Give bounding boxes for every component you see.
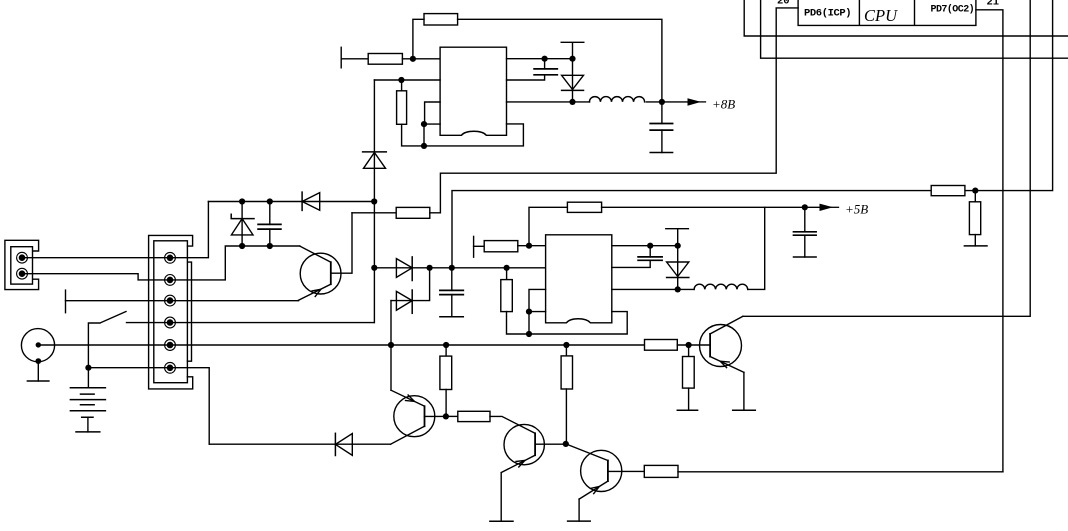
wire R14 to pin21 net bbox=[678, 471, 1003, 473]
node dot D1 top bbox=[569, 56, 575, 62]
resistor R11 vertical bbox=[440, 345, 452, 416]
node dot zener top bbox=[239, 198, 245, 204]
node dot fb junction bbox=[526, 243, 532, 249]
wire D7 to Q4 collector bbox=[335, 443, 390, 445]
resistor R3 vertical bbox=[397, 80, 424, 146]
node dot Q4 emitter bus bbox=[388, 342, 394, 348]
capacitor C6 bbox=[794, 207, 817, 257]
node dot IC2 pin4 bbox=[526, 309, 532, 315]
resistor R7 bbox=[931, 186, 965, 196]
connector X2 housing bbox=[154, 241, 188, 383]
wire Q1 base to R4 bbox=[352, 212, 396, 214]
resistor R6 vertical bbox=[501, 268, 529, 334]
resistor R9 bbox=[645, 340, 678, 351]
wire IC2 bottom wrap loop bbox=[529, 312, 627, 334]
wire Q3 collector net bbox=[743, 0, 1030, 316]
terminal stub T1 bbox=[340, 47, 342, 68]
node dot D6 top bbox=[675, 243, 681, 249]
wire Q4 emitter to bus bbox=[390, 345, 392, 390]
wire CPU pin21 down bbox=[976, 10, 1003, 472]
capacitor C3 bbox=[258, 202, 281, 247]
CPU box bbox=[798, 0, 976, 25]
wire IC1 pin1 right rail bbox=[507, 58, 573, 60]
wire T1 to R2 bbox=[341, 58, 368, 60]
node dot C3 top bbox=[267, 198, 273, 204]
node dot IC2 loop bbox=[526, 331, 532, 337]
wire IC1 output bbox=[507, 101, 590, 103]
capacitor C2 bbox=[650, 102, 672, 153]
connector X2 pin 5 bbox=[165, 340, 176, 351]
wire battery rail top bbox=[208, 201, 374, 203]
svg-text:PD6(ICP): PD6(ICP) bbox=[804, 8, 851, 20]
node dot R8 top bbox=[972, 188, 978, 194]
wire L1 to arrow bbox=[646, 101, 688, 103]
svg-text:+5B: +5B bbox=[845, 201, 868, 216]
resistor R12 vertical bbox=[561, 345, 572, 444]
wire long bus y58 bbox=[761, 0, 1068, 58]
diode D7 bbox=[335, 433, 352, 455]
wire R4 to CPU pin20 bbox=[430, 8, 798, 213]
connector X2 pin 1 bbox=[165, 252, 176, 263]
capacitor C4 bbox=[440, 268, 463, 317]
inductor L1 bbox=[589, 97, 644, 102]
resistor R4 bbox=[396, 207, 430, 218]
wire IC2 pin3 left bbox=[529, 289, 546, 311]
node dot D4 out bbox=[427, 265, 433, 271]
resistor R14 bbox=[644, 465, 678, 477]
wire IC1 pin2 left to rail bbox=[374, 79, 440, 81]
wire R5 to IC2 pin1 bbox=[518, 245, 546, 247]
connector X2 shell bbox=[149, 235, 193, 389]
wire IC2 output bbox=[612, 288, 694, 290]
connector X1 pin 1 bbox=[17, 252, 28, 263]
wire IC1 pin4 left bbox=[424, 124, 440, 146]
terminal stub T3 bbox=[473, 236, 475, 257]
zener VD1 bbox=[231, 202, 254, 247]
terminal stub pin3 bbox=[65, 290, 67, 313]
svg-text:20: 20 bbox=[777, 0, 790, 7]
diode D6 bbox=[667, 246, 689, 290]
resistor R fb2 bbox=[567, 202, 601, 212]
node dot C3 bottom bbox=[267, 243, 273, 249]
wire R1 left to node bbox=[413, 19, 424, 59]
wire IC2 pin4 left bbox=[529, 312, 546, 334]
connector X1 pin 2 bbox=[17, 268, 28, 279]
terminal bar T4 bbox=[666, 229, 689, 246]
svg-text:PD7(OC2): PD7(OC2) bbox=[931, 3, 975, 15]
resistor R5 bbox=[484, 241, 518, 252]
ground Q5 emitter bbox=[490, 473, 513, 522]
transistor Q6 bbox=[566, 444, 645, 499]
connector X1 shell bbox=[5, 240, 39, 289]
wire IC1 bottom wrap loop bbox=[424, 124, 523, 146]
diode D3 left-pointing bbox=[302, 192, 320, 210]
wire rail 267.8 left bbox=[374, 267, 545, 269]
node dot junction R1/R2 bbox=[410, 56, 416, 62]
wire pin6 net to diode D7 bbox=[209, 443, 335, 445]
wire feedback rail y190 bbox=[452, 0, 1053, 268]
node dot zener bottom bbox=[239, 243, 245, 249]
resistor R8 vertical bbox=[964, 191, 987, 246]
diode D4 bbox=[396, 257, 412, 281]
DC jack J1 bbox=[21, 329, 54, 381]
svg-text:+8B: +8B bbox=[712, 97, 735, 112]
wire IC2 pin1 right rail bbox=[612, 245, 678, 247]
node dot R11 bus bbox=[443, 342, 449, 348]
connector X2 pin 6 bbox=[165, 362, 176, 373]
wire R1 right to +8B node bbox=[458, 19, 662, 102]
wire X1 pin1 to rail corner bbox=[25, 202, 208, 258]
node dot R6 top bbox=[504, 265, 510, 271]
wire R fb2 to +5B bbox=[602, 206, 820, 208]
wire battery node to pin6 bbox=[88, 368, 209, 445]
connector X1 housing bbox=[11, 247, 33, 284]
inductor L2 bbox=[694, 284, 748, 289]
diode D1 bbox=[562, 59, 584, 102]
node dot bottom loop bbox=[421, 143, 427, 149]
wire R9 to Q3 base bbox=[677, 344, 710, 346]
op-amp U2 converter IC box bbox=[546, 235, 612, 323]
node dot output pin bbox=[569, 99, 575, 105]
connector X2 pin 4 bbox=[165, 317, 176, 328]
svg-text:CPU: CPU bbox=[864, 6, 898, 25]
wire pin3 to Q1 emitter bbox=[66, 300, 299, 302]
node dot rail267 bbox=[371, 265, 377, 271]
connector X2 pin 3 bbox=[165, 295, 176, 306]
diode D5 bbox=[391, 268, 430, 345]
resistor R1 feedback top bbox=[424, 14, 458, 25]
node dot +5B bbox=[802, 204, 808, 210]
wire feedback R fb2 left bbox=[529, 207, 567, 245]
wire L2 riser to +5B rail bbox=[748, 207, 765, 289]
node dot IC2 output bbox=[675, 286, 681, 292]
node dot R12 bus bbox=[563, 342, 569, 348]
svg-text:21: 21 bbox=[987, 0, 1000, 8]
resistor R13 bbox=[446, 411, 535, 433]
resistor R10 vertical bbox=[677, 345, 697, 410]
wire T3 to R5 bbox=[474, 245, 485, 247]
wire long bus y36 bbox=[744, 0, 1068, 36]
connector X2 pin 2 bbox=[165, 275, 176, 286]
wire main vertical rail bbox=[373, 80, 375, 323]
wire switch to main rail bbox=[127, 322, 375, 324]
node dot C5 top bbox=[647, 243, 653, 249]
battery GB1 bbox=[70, 368, 105, 432]
node dot rail to vertical bbox=[371, 198, 377, 204]
node dot C1 top bbox=[542, 56, 548, 62]
transistor Q3 bbox=[700, 316, 744, 372]
capacitor C1 bbox=[507, 59, 558, 80]
wire X1 pin2 jog to rail bbox=[25, 246, 300, 280]
switch S1 bbox=[88, 312, 126, 368]
node dot Q3 base bbox=[686, 342, 692, 348]
node +5B arrow bbox=[820, 204, 834, 211]
ground Q3 emitter bbox=[733, 372, 756, 410]
terminal bar T2 bbox=[561, 42, 584, 58]
wire IC1 pin3 left bbox=[425, 102, 441, 124]
node dot battery top bbox=[85, 365, 91, 371]
node +8B arrow bbox=[688, 98, 702, 106]
ground Q6 emitter bbox=[568, 499, 591, 521]
wire R2 to IC1 pin bbox=[402, 58, 440, 60]
node dot Q4 base bbox=[443, 413, 449, 419]
transistor Q1 bbox=[298, 213, 352, 301]
node dot +8B bbox=[659, 99, 665, 105]
resistor R2 bbox=[368, 54, 402, 65]
node dot pin4 bbox=[421, 121, 427, 127]
node dot Q5 base Q6 collector bbox=[563, 441, 569, 447]
node dot C4 top bbox=[449, 265, 455, 271]
capacitor C5 bbox=[612, 246, 662, 268]
transistor Q4 bbox=[391, 390, 446, 444]
wire main bus jack to R9 bbox=[38, 344, 644, 346]
op-amp U1 converter IC box bbox=[440, 47, 506, 135]
transistor Q5 bbox=[501, 424, 566, 472]
diode D2 vertical bbox=[363, 152, 387, 168]
node dot R3 top bbox=[398, 77, 404, 83]
